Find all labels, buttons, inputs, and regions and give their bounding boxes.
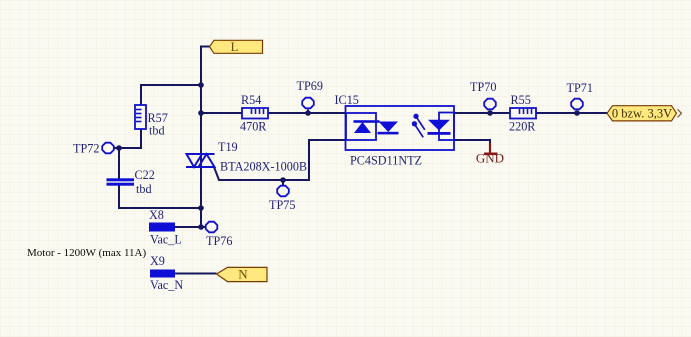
svg-text:N: N	[238, 267, 248, 282]
svg-text:BTA208X-1000B: BTA208X-1000B	[220, 160, 307, 174]
svg-text:T19: T19	[218, 140, 238, 154]
svg-text:tbd: tbd	[149, 124, 165, 138]
svg-text:TP70: TP70	[470, 80, 496, 94]
svg-text:Vac_N: Vac_N	[150, 278, 183, 292]
svg-text:220R: 220R	[509, 120, 536, 134]
svg-text:Vac_L: Vac_L	[150, 233, 182, 247]
svg-text:C22: C22	[135, 168, 155, 182]
svg-text:X9: X9	[150, 254, 165, 268]
svg-text:TP71: TP71	[567, 81, 593, 95]
svg-text:IC15: IC15	[335, 93, 359, 107]
svg-text:X8: X8	[149, 208, 164, 222]
svg-text:PC4SD11NTZ: PC4SD11NTZ	[350, 154, 422, 168]
svg-text:TP72: TP72	[73, 142, 99, 156]
svg-text:tbd: tbd	[136, 182, 152, 196]
svg-text:0 bzw. 3,3V: 0 bzw. 3,3V	[612, 107, 672, 121]
svg-text:TP76: TP76	[206, 234, 232, 248]
svg-text:Motor - 1200W (max 11A): Motor - 1200W (max 11A)	[27, 247, 146, 259]
svg-text:TP69: TP69	[297, 79, 323, 93]
svg-text:R54: R54	[241, 93, 261, 107]
svg-text:TP75: TP75	[269, 198, 295, 212]
svg-text:L: L	[231, 39, 239, 54]
svg-text:GND: GND	[476, 151, 504, 166]
svg-text:R55: R55	[511, 93, 531, 107]
svg-text:470R: 470R	[240, 120, 267, 134]
